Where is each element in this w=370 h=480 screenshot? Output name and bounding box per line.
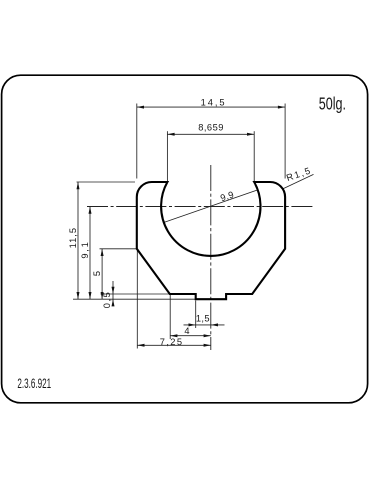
dimension 0,5 line (arrows outside)	[112, 281, 114, 306]
centerline horizontal (through bore center)	[87, 206, 313, 208]
svg-text:50lg.: 50lg.	[319, 93, 346, 113]
extension line lower side level (0,5)	[101, 293, 171, 295]
extension line 8,659 right	[253, 131, 255, 181]
leader line R1,5 (to ear corner radius)	[283, 174, 313, 188]
svg-text:5: 5	[92, 271, 102, 276]
dimension 11,5 line	[77, 182, 79, 299]
svg-text:9,9: 9,9	[219, 189, 235, 203]
extension line 14,5 left	[136, 104, 138, 179]
dimension 14,5 line	[137, 106, 285, 108]
dimension 9,1 line	[89, 207, 91, 300]
diameter line 9,9 (across bore)	[164, 190, 257, 222]
svg-text:14,5: 14,5	[201, 97, 225, 107]
svg-text:2.3.6.921: 2.3.6.921	[17, 375, 51, 391]
svg-text:9,1: 9,1	[80, 242, 90, 259]
svg-text:11,5: 11,5	[68, 228, 78, 248]
extension line tab bottom level (11,5 / 9,1 / 5 / 0,5)	[73, 298, 196, 300]
extension line top face (11,5)	[77, 181, 136, 183]
svg-text:1,5: 1,5	[196, 314, 210, 324]
svg-text:R1,5: R1,5	[285, 166, 311, 183]
extension line 14,5 right	[284, 104, 286, 179]
svg-text:0,5: 0,5	[102, 292, 112, 308]
extension line 8,659 left	[166, 131, 168, 181]
dimension 7,25 line	[137, 344, 211, 346]
svg-text:4: 4	[184, 326, 189, 336]
extension line 7,25 left	[136, 250, 138, 349]
dimension 8,659 line	[167, 133, 254, 135]
dimension 1,5 line (arrows outside)	[184, 324, 225, 326]
part outline (clamp profile)	[137, 182, 285, 299]
extension line chamfer start (5)	[100, 248, 137, 250]
extension line 4 left	[169, 295, 171, 339]
dimension 4 line	[170, 335, 211, 337]
dimension 5 line	[101, 249, 103, 299]
svg-text:7,25: 7,25	[160, 337, 182, 347]
svg-text:8,659: 8,659	[198, 122, 223, 132]
extension line 1,5 left	[195, 301, 197, 329]
drawing sheet border	[2, 75, 368, 403]
centerline vertical (part axis)	[210, 165, 212, 350]
